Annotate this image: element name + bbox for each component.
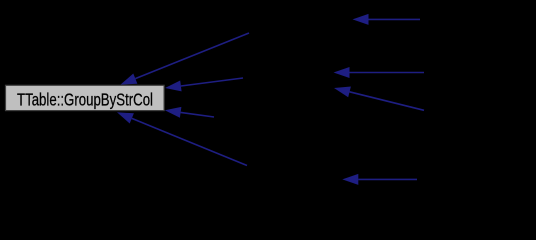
edge C: caller arrow into node right edge upper — [165, 78, 243, 91]
edge G: caller arrow into node bottom edge — [117, 112, 247, 165]
edge D: horizontal arrow to hidden middle node — [334, 67, 425, 78]
edge A: caller arrow top right (to hidden node) — [353, 14, 421, 25]
edge F: caller arrow into node right edge lower — [165, 107, 214, 118]
edge B: caller arrow into node top edge — [121, 33, 250, 85]
edge E: diagonal arrow to hidden middle node — [334, 87, 424, 111]
svg-text:TTable::GroupByStrCol: TTable::GroupByStrCol — [17, 89, 153, 109]
node TTable::GroupByStrCol — [6, 85, 165, 110]
edge H: caller arrow bottom right (to hidden node) — [342, 174, 417, 185]
